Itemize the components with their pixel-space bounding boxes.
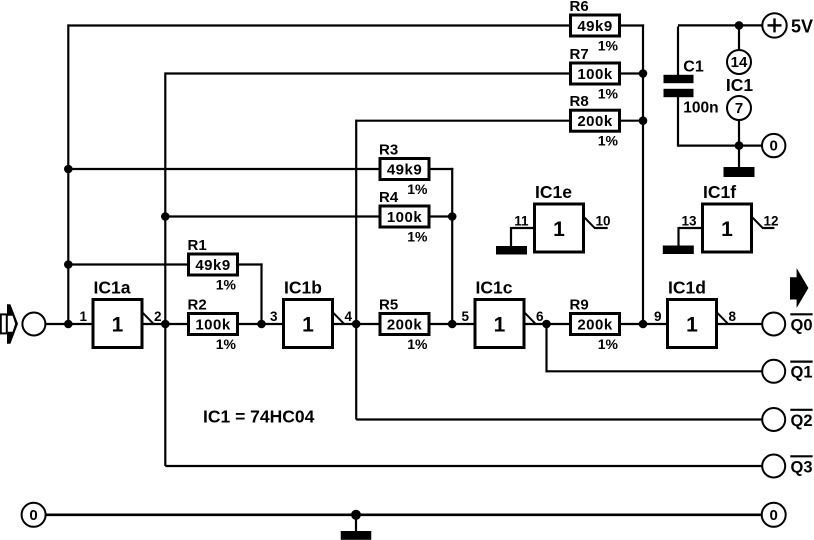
svg-text:IC1e: IC1e: [535, 182, 572, 202]
wire 5V to pin 14: [738, 25, 740, 50]
wire IC1d out to Q0: [717, 323, 763, 325]
svg-text:1%: 1%: [598, 336, 619, 352]
svg-text:1%: 1%: [598, 86, 619, 102]
wire R1 row: [68, 263, 188, 265]
inverter IC1f: [681, 182, 778, 252]
wire IC1f output stub: [762, 227, 774, 229]
svg-text:11: 11: [514, 213, 529, 228]
output arrow: [790, 268, 808, 308]
svg-text:100k: 100k: [387, 209, 423, 226]
svg-text:Q1: Q1: [791, 364, 813, 382]
wire pin 7 to ground: [738, 120, 740, 169]
wire R9 to IC1d: [620, 323, 668, 325]
svg-text:R1: R1: [188, 237, 207, 254]
svg-text:1: 1: [553, 218, 565, 241]
svg-text:0: 0: [770, 138, 778, 155]
svg-text:IC1 = 74HC04: IC1 = 74HC04: [203, 406, 315, 426]
ground (IC1e input): [496, 246, 527, 255]
wire R3 row: [68, 168, 379, 170]
svg-text:49k9: 49k9: [387, 162, 422, 179]
resistor R7: [570, 46, 620, 102]
svg-text:200k: 200k: [387, 317, 423, 334]
svg-text:R8: R8: [570, 93, 589, 110]
junction: [639, 116, 648, 125]
svg-text:10: 10: [596, 213, 611, 228]
svg-text:100k: 100k: [577, 66, 613, 83]
svg-text:9: 9: [654, 309, 662, 324]
junction: [161, 320, 170, 329]
wire IC1e input stub: [511, 227, 535, 229]
svg-text:1%: 1%: [598, 38, 619, 54]
svg-text:IC1d: IC1d: [668, 278, 706, 298]
resistor R6: [570, 0, 620, 54]
svg-text:IC1c: IC1c: [476, 278, 513, 298]
inverter IC1e: [514, 182, 610, 252]
svg-text:1: 1: [112, 313, 124, 336]
wire R1 right: [238, 263, 263, 265]
output terminal Q0 (inverted): [762, 313, 812, 336]
inverter IC1b: [270, 278, 353, 348]
svg-text:R7: R7: [570, 46, 589, 63]
junction: [542, 320, 551, 329]
junction: [639, 320, 648, 329]
wire R8 row: [356, 120, 570, 122]
ground (bottom rail): [341, 515, 372, 540]
output terminal Q1 (inverted): [762, 360, 812, 383]
svg-text:12: 12: [764, 213, 779, 228]
svg-text:6: 6: [536, 309, 544, 324]
svg-text:1: 1: [79, 309, 87, 324]
svg-text:1%: 1%: [407, 181, 428, 197]
wire Q3 row: [165, 465, 762, 467]
terminal 0 top right: [762, 134, 785, 157]
resistor R2: [188, 297, 238, 353]
resistor R5: [379, 297, 429, 353]
power terminal +5V: [762, 13, 813, 37]
wire vertical from IC1b output to R8/Q2: [355, 120, 357, 420]
svg-text:1: 1: [686, 313, 698, 336]
wire R8 right: [620, 120, 643, 122]
svg-text:49k9: 49k9: [195, 257, 230, 274]
output terminal Q2 (inverted): [762, 408, 812, 431]
capacitor C1: [664, 59, 719, 117]
svg-text:200k: 200k: [577, 317, 613, 334]
wire C1 top lead: [677, 27, 679, 76]
svg-text:1: 1: [494, 313, 506, 336]
svg-text:1%: 1%: [407, 229, 428, 245]
wire R7 right: [620, 72, 643, 74]
junction: [64, 320, 73, 329]
wire IC1b out to R5: [333, 323, 380, 325]
wire Q2 row: [356, 418, 762, 420]
resistor R3: [379, 142, 429, 198]
wire IC1a out to R2: [142, 323, 188, 325]
junction 5V node: [735, 21, 744, 30]
wire IC1e output stub: [594, 227, 608, 229]
svg-text:5: 5: [461, 309, 469, 324]
wire R4 right: [430, 215, 453, 217]
wire bottom 0 rail: [46, 513, 762, 516]
svg-text:Q0: Q0: [791, 316, 813, 334]
ground (IC1 supply): [724, 167, 755, 177]
svg-text:13: 13: [681, 213, 697, 228]
svg-text:Q2: Q2: [791, 412, 813, 430]
terminal 0 bottom left: [22, 503, 46, 527]
wire C1 bottom lead: [677, 97, 679, 146]
pin 14 bubble: [727, 50, 751, 74]
inverter IC1c: [461, 278, 544, 348]
inverter IC1a: [79, 278, 161, 348]
svg-text:IC1a: IC1a: [94, 278, 131, 298]
terminal 0 bottom right: [762, 503, 786, 527]
svg-text:100k: 100k: [195, 317, 231, 334]
svg-text:8: 8: [729, 309, 737, 324]
wire vertical R3/R4 to pin5: [451, 168, 453, 324]
svg-text:1: 1: [302, 313, 314, 336]
svg-text:IC1: IC1: [726, 75, 754, 95]
svg-text:Q3: Q3: [791, 458, 813, 476]
svg-text:14: 14: [731, 54, 748, 71]
junction: [448, 212, 457, 221]
wire top rail to R6: [68, 24, 570, 26]
svg-text:IC1b: IC1b: [284, 278, 322, 298]
wire input circle to IC1a: [46, 323, 93, 325]
svg-text:100n: 100n: [683, 99, 718, 116]
svg-text:200k: 200k: [577, 113, 613, 130]
svg-text:2: 2: [154, 309, 162, 324]
resistor R4: [379, 189, 429, 245]
wire R4 row: [165, 215, 379, 217]
wire second vertical IC1a output to Q3: [164, 72, 166, 466]
wire left vertical from top rail to input: [67, 24, 69, 324]
svg-text:1%: 1%: [216, 277, 237, 293]
svg-text:1%: 1%: [407, 336, 428, 352]
wire vertical R1 to pin3: [260, 263, 262, 324]
svg-text:7: 7: [735, 100, 743, 117]
svg-text:R9: R9: [570, 297, 589, 314]
svg-text:R3: R3: [379, 142, 398, 159]
svg-text:49k9: 49k9: [577, 18, 612, 35]
junction: [161, 212, 170, 221]
input arrow: [1, 304, 18, 344]
junction bottom rail ground: [351, 510, 361, 520]
wire 0 link row: [678, 145, 762, 147]
wire IC1c out to R9: [524, 323, 570, 325]
svg-text:R6: R6: [570, 0, 589, 15]
svg-text:0: 0: [29, 507, 37, 524]
svg-text:3: 3: [270, 309, 278, 324]
resistor R9: [570, 297, 620, 353]
junction: [448, 320, 457, 329]
wire pin6 down to Q1: [545, 324, 547, 372]
svg-text:1%: 1%: [216, 336, 237, 352]
svg-text:0: 0: [770, 507, 778, 524]
junction: [352, 320, 361, 329]
wire R2 to IC1b: [238, 323, 284, 325]
svg-text:C1: C1: [683, 59, 704, 76]
output terminal Q3 (inverted): [762, 455, 812, 478]
wire Q1 row: [547, 370, 763, 372]
wire R6 right to feedback bus: [620, 24, 644, 26]
wire R3 right: [430, 168, 454, 170]
inverter IC1d: [654, 278, 737, 348]
junction: [64, 260, 73, 269]
junction 0 link node: [735, 141, 744, 150]
wire IC1f input stub: [679, 227, 703, 229]
junction: [639, 69, 648, 78]
resistor R1: [188, 237, 238, 293]
junction: [64, 165, 73, 174]
input terminal circle: [22, 313, 45, 336]
resistor R8: [570, 93, 620, 149]
wire feedback bus vertical: [642, 24, 644, 324]
svg-text:5V: 5V: [791, 17, 813, 37]
svg-text:4: 4: [345, 309, 353, 324]
svg-text:R2: R2: [188, 297, 207, 314]
junction: [257, 320, 266, 329]
svg-text:1: 1: [721, 218, 733, 241]
svg-text:1%: 1%: [598, 133, 619, 149]
pin 7 bubble: [727, 96, 751, 120]
svg-text:R5: R5: [379, 297, 398, 314]
ground (IC1f input): [663, 246, 694, 255]
svg-text:IC1f: IC1f: [703, 182, 736, 202]
wire R5 to IC1c: [430, 323, 476, 325]
wire R7 row: [165, 72, 570, 74]
svg-text:R4: R4: [379, 189, 399, 206]
